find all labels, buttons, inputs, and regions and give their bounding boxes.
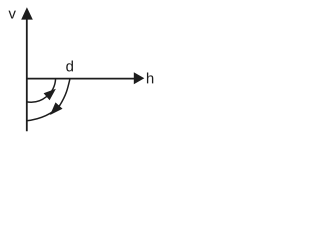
outer angle arc (from h axis down to vertical line) <box>27 79 70 121</box>
inner angle arc (from down-vertical to h axis) <box>27 79 56 103</box>
label d <box>66 60 73 71</box>
v axis line <box>26 19 28 132</box>
h axis arrowhead <box>134 72 145 84</box>
label h <box>147 73 153 84</box>
v axis arrowhead <box>21 7 33 19</box>
h axis line <box>27 78 135 80</box>
outer arc arrowhead (pointing SW) <box>50 102 63 115</box>
label v <box>9 11 16 19</box>
inner arc arrowhead (pointing NE) <box>44 89 56 101</box>
